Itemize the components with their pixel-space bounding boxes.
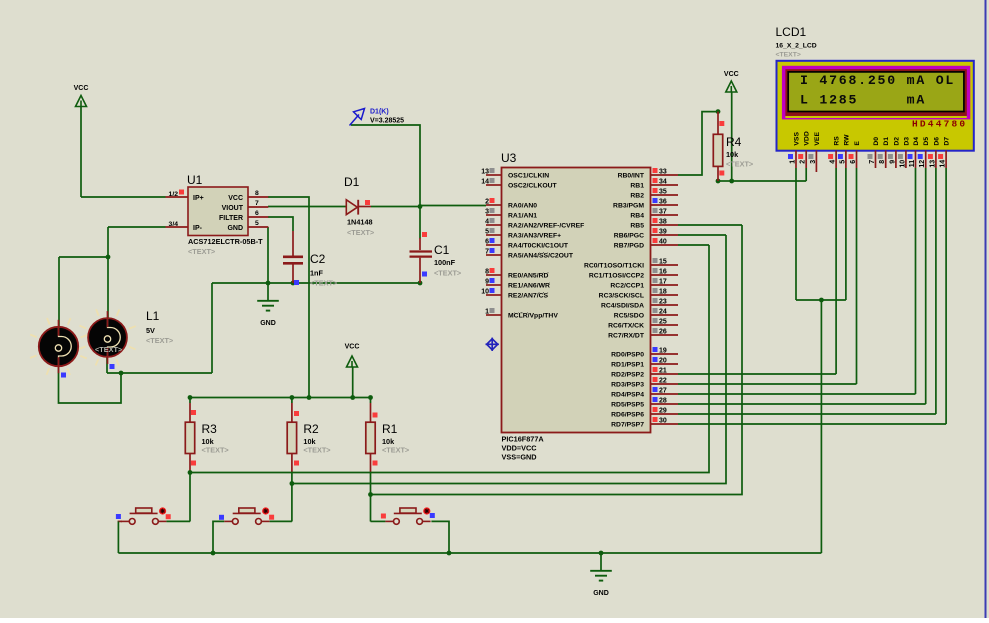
U3 pin 39 RB6/PGC	[651, 234, 679, 236]
svg-text:20: 20	[659, 358, 667, 365]
marker C2 bottom	[294, 280, 299, 285]
svg-text:RB4: RB4	[630, 213, 644, 220]
marker U3 pin 17	[653, 278, 658, 283]
svg-text:25: 25	[659, 319, 667, 326]
junction button3 gnd	[447, 551, 452, 556]
svg-text:4: 4	[485, 219, 489, 226]
junction U1 gnd	[266, 281, 271, 286]
marker button1 left	[116, 514, 121, 519]
svg-text:<TEXT>: <TEXT>	[303, 445, 330, 454]
svg-text:8: 8	[255, 190, 259, 197]
svg-text:2: 2	[485, 199, 489, 206]
marker LCD pin 7	[868, 154, 873, 159]
svg-text:1nF: 1nF	[310, 269, 324, 278]
marker R2 bottom	[294, 461, 299, 466]
voltage probe D1(K)	[350, 109, 365, 126]
U3 pin 17 RC2/CCP1	[651, 284, 679, 286]
marker R1 top	[373, 413, 378, 418]
svg-text:RB0/INT: RB0/INT	[618, 173, 645, 180]
svg-text:3/4: 3/4	[169, 221, 179, 228]
marker button3 left	[381, 514, 386, 519]
marker R4 bottom	[719, 171, 724, 176]
svg-text:1: 1	[790, 160, 797, 164]
svg-text:D5: D5	[923, 137, 930, 146]
svg-text:<TEXT>: <TEXT>	[202, 445, 229, 454]
svg-text:5: 5	[485, 229, 489, 236]
marker U3 pin 16	[653, 268, 658, 273]
junction R1 top	[368, 395, 373, 400]
svg-text:<TEXT>: <TEXT>	[347, 228, 374, 237]
junction R4 top	[716, 109, 721, 114]
U3 pin 4 RA2/AN2/VREF-/CVREF	[486, 224, 502, 226]
svg-text:RB7/PGD: RB7/PGD	[614, 243, 644, 250]
svg-text:RE2/AN7/CS: RE2/AN7/CS	[508, 293, 549, 300]
junction C2 gnd	[291, 281, 296, 286]
svg-text:RC7/RX/DT: RC7/RX/DT	[608, 333, 645, 340]
resistor bottom pin	[291, 454, 293, 473]
junction R1 net	[368, 492, 373, 497]
wire to U1 IP+	[81, 196, 166, 198]
wire up to gnd rail	[211, 283, 213, 373]
svg-text:3: 3	[485, 209, 489, 216]
svg-text:ACS712ELCTR-05B-T: ACS712ELCTR-05B-T	[188, 237, 263, 246]
wire button1 to R3	[166, 520, 190, 522]
U3 pin 33 RB0/INT	[651, 174, 679, 176]
lamp L1 left bulb	[30, 318, 87, 375]
svg-text:D1(K): D1(K)	[370, 109, 389, 116]
svg-text:OSC1/CLKIN: OSC1/CLKIN	[508, 173, 549, 180]
svg-text:V=3.28525: V=3.28525	[370, 118, 404, 125]
wire RD2 to RS	[678, 373, 836, 375]
U3 pin 40 RB7/PGD	[651, 244, 679, 246]
marker U3 pin 15	[653, 258, 658, 263]
wire LCD RW down	[845, 168, 847, 300]
marker LCD pin 9	[888, 154, 893, 159]
junction U1 vcc rail	[307, 395, 312, 400]
U3 pin 10 RE2/AN7/CS	[486, 294, 502, 296]
capacitor C2 1nF	[283, 231, 303, 283]
marker R1 bottom	[373, 461, 378, 466]
junction C1 gnd	[418, 281, 423, 286]
marker LCD pin 11	[908, 154, 913, 159]
U1 pin IP- 3/4	[166, 226, 189, 228]
svg-text:RC5/SDO: RC5/SDO	[614, 313, 644, 320]
svg-text:6: 6	[485, 239, 489, 246]
svg-text:D4: D4	[913, 137, 920, 146]
svg-text:22: 22	[659, 378, 667, 385]
U3 pin 36 RB3/PGM	[651, 204, 679, 206]
U3 pin 23 RC4/SDI/SDA	[651, 304, 679, 306]
LCD pin 2 VDD	[800, 131, 811, 168]
svg-text:C1: C1	[434, 243, 450, 257]
junction R2 net	[290, 481, 295, 486]
marker R3 top	[191, 410, 196, 415]
svg-text:D6: D6	[933, 137, 940, 146]
U1 pin IP+ 1/2	[166, 196, 189, 198]
svg-text:VEE: VEE	[814, 132, 821, 146]
svg-text:7: 7	[869, 160, 876, 164]
svg-text:FILTER: FILTER	[219, 215, 243, 222]
marker LCD pin 1	[788, 154, 793, 159]
svg-text:D3: D3	[903, 137, 910, 146]
svg-text:VIOUT: VIOUT	[222, 205, 244, 212]
wire button1 stub ext	[118, 520, 122, 522]
marker U3 pin 28	[653, 397, 658, 402]
svg-text:3: 3	[810, 160, 817, 164]
U3 pin 6 RA4/T0CKI/C1OUT	[486, 244, 502, 246]
svg-text:RC6/TX/CK: RC6/TX/CK	[608, 323, 644, 330]
marker U3 pin 37	[653, 208, 658, 213]
marker LCD pin 14	[938, 154, 943, 159]
resistor R1 10k	[366, 422, 375, 453]
svg-text:VSS: VSS	[794, 132, 801, 146]
U1 pin 5 GND	[248, 226, 268, 228]
svg-text:23: 23	[659, 299, 667, 306]
button SW1	[121, 507, 166, 524]
lamp L1 right bulb	[79, 309, 135, 365]
svg-text:<TEXT>: <TEXT>	[95, 345, 122, 354]
svg-text:12: 12	[919, 160, 926, 168]
svg-text:RD3/PSP3: RD3/PSP3	[611, 382, 644, 389]
LCD pin 4 RS	[830, 136, 841, 168]
svg-text:6: 6	[850, 160, 857, 164]
svg-text:4: 4	[830, 160, 837, 164]
svg-text:14: 14	[481, 179, 489, 186]
marker U3 pin 36	[653, 198, 658, 203]
wire resistor to button	[291, 473, 293, 522]
marker U3 pin 14	[490, 178, 495, 183]
wire R2 net to RB6	[292, 235, 726, 484]
wire VCC2 down	[352, 367, 354, 398]
U3 pin 24 RC5/SDO	[651, 314, 679, 316]
svg-text:R4: R4	[726, 135, 742, 149]
svg-text:RA0/AN0: RA0/AN0	[508, 203, 537, 210]
svg-text:38: 38	[659, 219, 667, 226]
origin marker	[486, 338, 499, 351]
svg-text:LCD1: LCD1	[776, 25, 807, 39]
marker U3 pin 20	[653, 357, 658, 362]
marker LCD pin 13	[928, 154, 933, 159]
svg-text:RC4/SDI/SDA: RC4/SDI/SDA	[601, 303, 644, 310]
svg-text:40: 40	[659, 239, 667, 246]
svg-text:21: 21	[659, 368, 667, 375]
svg-text:5: 5	[839, 160, 846, 164]
wire LCD VSS down	[795, 168, 797, 300]
U3 pin 19 RD0/PSP0	[651, 353, 679, 355]
ground under U1	[257, 283, 279, 327]
button SW2	[224, 507, 269, 524]
junction R3 net	[188, 470, 193, 475]
U3 pin 20 RD1/PSP1	[651, 363, 679, 365]
marker U3 pin 1	[490, 308, 495, 313]
svg-text:<TEXT>: <TEXT>	[382, 445, 409, 454]
LCD pin 12 D5	[919, 137, 930, 168]
U3 pin 5 RA3/AN3/VREF+	[486, 234, 502, 236]
svg-text:VSS=GND: VSS=GND	[502, 453, 537, 462]
svg-text:<TEXT>: <TEXT>	[146, 336, 173, 345]
svg-text:16: 16	[659, 269, 667, 276]
power VCC at R4	[724, 71, 739, 92]
junction R3 top	[188, 395, 193, 400]
diode D1 1N4148	[346, 200, 371, 215]
marker U3 pin 8	[490, 268, 495, 273]
wire R1 net to RB5	[371, 225, 743, 495]
svg-text:8: 8	[485, 269, 489, 276]
svg-text:RD4/PSP4: RD4/PSP4	[611, 392, 644, 399]
U3 pin 9 RE1/AN6/WR	[486, 284, 502, 286]
marker U3 pin 10	[490, 288, 495, 293]
svg-text:PIC16F877A: PIC16F877A	[502, 435, 545, 444]
svg-text:D1: D1	[883, 137, 890, 146]
marker button3 right	[430, 513, 435, 518]
U3 pin 8 RE0/AN5/RD	[486, 274, 502, 276]
LCD pin 5 RW	[839, 134, 850, 168]
U3 pin 2 RA0/AN0	[486, 204, 502, 206]
marker U3 pin 38	[653, 218, 658, 223]
wire RD6 to D6	[678, 413, 936, 415]
svg-text:<TEXT>: <TEXT>	[776, 52, 801, 59]
svg-text:18: 18	[659, 289, 667, 296]
svg-text:R3: R3	[202, 422, 218, 436]
svg-text:RB6/PGC: RB6/PGC	[614, 233, 644, 240]
svg-text:D1: D1	[344, 175, 360, 189]
svg-text:<TEXT>: <TEXT>	[188, 247, 215, 256]
svg-text:9: 9	[889, 160, 896, 164]
marker U3 pin 22	[653, 377, 658, 382]
resistor top pin	[370, 403, 372, 422]
wire VSS-RW link	[796, 299, 846, 301]
U3 pin 1 MCLR/Vpp/THV	[486, 314, 502, 316]
U1 pin 8 VCC	[248, 196, 268, 198]
U3 pin 7 RA5/AN4/SS/C2OUT	[486, 254, 502, 256]
wire U1 IP- left	[108, 226, 166, 228]
wire button3 to R1	[371, 520, 386, 522]
marker U3 pin 9	[490, 278, 495, 283]
U3 pin 29 RD6/PSP6	[651, 413, 679, 415]
svg-text:16_X_2_LCD: 16_X_2_LCD	[776, 43, 817, 50]
svg-text:<TEXT>: <TEXT>	[310, 279, 337, 288]
display LCD1 16x2	[777, 61, 974, 151]
junction VSS gnd drop	[819, 298, 824, 303]
ground bottom	[590, 553, 612, 597]
marker U3 pin 18	[653, 288, 658, 293]
svg-text:100nF: 100nF	[434, 258, 456, 267]
wire LCD D7 down	[945, 168, 947, 424]
marker U3 pin 40	[653, 238, 658, 243]
svg-text:7: 7	[485, 249, 489, 256]
wire D1 to node	[371, 206, 420, 208]
wire VCC3 down	[731, 92, 733, 182]
svg-text:VCC: VCC	[724, 71, 739, 78]
marker U3 pin 33	[653, 168, 658, 173]
svg-text:8: 8	[879, 160, 886, 164]
svg-text:VCC: VCC	[345, 344, 360, 351]
marker U3 pin 7	[490, 248, 495, 253]
wire rail stub	[291, 398, 293, 404]
wire FILTER to C2	[268, 217, 293, 231]
junction R4 bottom	[716, 179, 721, 184]
svg-text:26: 26	[659, 329, 667, 336]
wire LCD D4 down	[915, 168, 917, 394]
wire down to lamp2	[107, 227, 109, 320]
marker LCD pin 6	[849, 154, 854, 159]
svg-text:19: 19	[659, 348, 667, 355]
svg-text:30: 30	[659, 418, 667, 425]
svg-text:RA2/AN2/VREF-/CVREF: RA2/AN2/VREF-/CVREF	[508, 223, 584, 230]
wire lamp2 bottom	[106, 357, 108, 374]
U3 pin 18 RC3/SCK/SCL	[651, 294, 679, 296]
svg-text:D2: D2	[893, 137, 900, 146]
wire down to lamp1	[58, 257, 60, 327]
wire button3 to gnd	[431, 521, 449, 553]
power VCC mid	[345, 344, 360, 368]
marker button1 right	[166, 514, 171, 519]
junction lamp net	[106, 255, 111, 260]
svg-text:6: 6	[255, 210, 259, 217]
junction lamp gnd	[119, 371, 124, 376]
marker LCD pin 12	[918, 154, 923, 159]
svg-text:IP-: IP-	[193, 225, 203, 232]
svg-text:RB3/PGM: RB3/PGM	[613, 203, 644, 210]
marker button2 left	[219, 515, 224, 520]
marker LCD pin 2	[798, 154, 803, 159]
marker U3 pin 6	[490, 238, 495, 243]
svg-text:RA1/AN1: RA1/AN1	[508, 213, 537, 220]
wire RB0 to R4	[678, 112, 718, 175]
svg-text:L1: L1	[146, 309, 160, 323]
U3 pin 28 RD5/PSP5	[651, 403, 679, 405]
svg-text:RD1/PSP1: RD1/PSP1	[611, 362, 644, 369]
svg-text:36: 36	[659, 199, 667, 206]
U3 pin 16 RC1/T1OSI/CCP2	[651, 274, 679, 276]
svg-text:RW: RW	[843, 134, 850, 146]
svg-text:VCC: VCC	[74, 85, 89, 92]
wire resistor to button	[370, 473, 372, 522]
U3 pin 13 OSC1/CLKIN	[486, 174, 502, 176]
LCD pin 6 E	[850, 141, 861, 168]
marker lamp1	[61, 373, 66, 378]
wire RD3 to E	[678, 383, 857, 385]
svg-text:GND: GND	[593, 590, 609, 597]
svg-text:RE0/AN5/RD: RE0/AN5/RD	[508, 273, 549, 280]
svg-text:RC1/T1OSI/CCP2: RC1/T1OSI/CCP2	[589, 273, 644, 280]
svg-text:<TEXT>: <TEXT>	[726, 160, 753, 169]
marker U3 pin 29	[653, 407, 658, 412]
svg-text:OSC2/CLKOUT: OSC2/CLKOUT	[508, 183, 558, 190]
marker U3 pin 30	[653, 417, 658, 422]
svg-text:14: 14	[940, 160, 947, 168]
svg-text:17: 17	[659, 279, 667, 286]
junction gnd symbol	[599, 551, 604, 556]
U3 pin 30 RD7/PSP7	[651, 423, 679, 425]
marker U3 pin 4	[490, 218, 495, 223]
marker LCD pin 8	[878, 154, 883, 159]
marker C1 top	[422, 232, 427, 237]
svg-text:28: 28	[659, 398, 667, 405]
svg-text:9: 9	[485, 279, 489, 286]
wire node to C1	[419, 207, 421, 239]
svg-text:5: 5	[255, 220, 259, 227]
wire ground bus	[118, 552, 821, 554]
junction R4 VCC	[729, 179, 734, 184]
svg-text:10k: 10k	[726, 150, 739, 159]
svg-text:13: 13	[481, 169, 489, 176]
marker U3 pin 27	[653, 387, 658, 392]
junction button2 gnd	[211, 551, 216, 556]
svg-text:7: 7	[255, 200, 259, 207]
resistor R3 10k	[185, 422, 194, 453]
resistor bottom pin	[370, 454, 372, 473]
wire R3 net to RB7	[190, 245, 709, 473]
IC U3 PIC16F877A body	[502, 168, 651, 433]
svg-text:RB5: RB5	[630, 223, 644, 230]
svg-text:24: 24	[659, 309, 667, 316]
svg-text:RC3/SCK/SCL: RC3/SCK/SCL	[599, 293, 644, 300]
wire button2 to gnd	[213, 521, 224, 553]
svg-text:10: 10	[899, 160, 906, 168]
wire resistor to button	[189, 473, 191, 522]
wire U1 VCC to rail	[268, 197, 309, 398]
svg-text:R2: R2	[303, 422, 319, 436]
svg-text:RA4/T0CKI/C1OUT: RA4/T0CKI/C1OUT	[508, 243, 569, 250]
svg-text:29: 29	[659, 408, 667, 415]
wire gnd drop	[820, 300, 822, 553]
svg-text:I 4768.250 mA OL: I 4768.250 mA OL	[800, 73, 955, 88]
svg-text:VCC: VCC	[228, 195, 243, 202]
svg-text:33: 33	[659, 169, 667, 176]
svg-text:1/2: 1/2	[169, 191, 179, 198]
wire VIOUT to D1	[268, 206, 346, 208]
svg-text:2: 2	[800, 160, 807, 164]
svg-text:35: 35	[659, 189, 667, 196]
wire RD4 to D4	[678, 393, 916, 395]
svg-text:C2: C2	[310, 252, 326, 266]
marker LCD pin 5	[838, 154, 843, 159]
U3 pin 3 RA1/AN1	[486, 214, 502, 216]
svg-text:D7: D7	[944, 137, 951, 146]
wire RD7 to D7	[678, 423, 946, 425]
marker U3 pin 5	[490, 228, 495, 233]
button SW3	[385, 507, 430, 524]
IC U1 ACS712 body	[187, 173, 263, 256]
wire LCD D5 down	[925, 168, 927, 404]
sheet border	[985, 0, 987, 618]
wire LCD E down	[856, 168, 858, 384]
marker U3 pin 21	[653, 367, 658, 372]
svg-text:RB1: RB1	[630, 183, 644, 190]
marker R4 top	[719, 121, 724, 126]
junction R2 top	[290, 395, 295, 400]
svg-text:GND: GND	[260, 320, 276, 327]
svg-text:RD2/PSP2: RD2/PSP2	[611, 372, 644, 379]
U3 pin 27 RD4/PSP4	[651, 393, 679, 395]
U1 pin 6 FILTER	[248, 216, 268, 218]
LCD pin 1 VSS	[790, 132, 801, 168]
U3 pin 35 RB2	[651, 194, 679, 196]
wire gnd rail	[212, 282, 420, 284]
svg-text:R1: R1	[382, 422, 398, 436]
junction VCC rail	[350, 395, 355, 400]
svg-text:13: 13	[929, 160, 936, 168]
wire VCC1 down	[80, 107, 82, 198]
wire vcc rail	[190, 397, 371, 399]
marker LCD pin 3	[808, 154, 813, 159]
svg-text:RD7/PSP7: RD7/PSP7	[611, 422, 644, 429]
marker U3 pin 25	[653, 318, 658, 323]
wire node to RA0	[420, 205, 486, 207]
wire rail stub	[370, 398, 372, 404]
wire RB7 out	[678, 244, 709, 246]
